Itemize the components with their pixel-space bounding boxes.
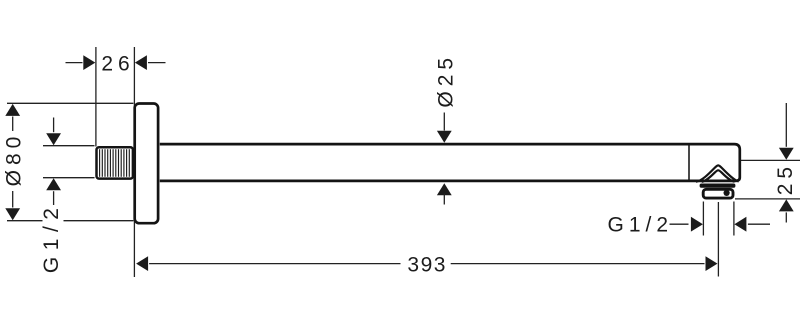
outlet seal band bbox=[700, 184, 736, 188]
dimension Ø80: bottom extension line bbox=[7, 220, 133, 222]
dimension G1/2 left: upper arrowhead bbox=[46, 133, 61, 145]
dimension G1/2 right: right extension line bbox=[733, 202, 735, 236]
dimension 393: right arrowhead bbox=[706, 256, 718, 271]
dimension 25 right: upper arrowhead bbox=[779, 148, 794, 160]
dimension Ø25: lower arrowhead bbox=[437, 183, 452, 195]
svg-text:25: 25 bbox=[774, 162, 797, 195]
svg-text:G1/2: G1/2 bbox=[608, 213, 674, 236]
dimension G1/2 left: top extension line bbox=[43, 145, 95, 147]
svg-text:393: 393 bbox=[407, 253, 447, 276]
dimension 26: left stem bbox=[66, 62, 83, 64]
outlet cup bbox=[703, 189, 733, 198]
dimension G1/2 right: leader stem bbox=[670, 223, 689, 225]
dimension 393: right line segment bbox=[451, 263, 705, 265]
dimension G1/2 left: lower arrowhead bbox=[46, 178, 61, 190]
dimension Ø80: upper stem bbox=[12, 117, 14, 132]
dimension G1/2 right: right-pointing arrowhead bbox=[691, 217, 703, 232]
dimension G1/2 right: left extension line bbox=[702, 202, 704, 236]
outlet chevron inner line bbox=[702, 170, 735, 182]
dimension G1/2 right: left-pointing arrowhead bbox=[734, 217, 746, 232]
dimension G1/2 left: lower stem bbox=[53, 191, 55, 207]
threaded nipple bbox=[97, 147, 133, 178]
dimension 393: right extension line (outlet axis) bbox=[717, 202, 719, 277]
dimension 26: right stem bbox=[148, 62, 166, 64]
dimension 25 right: lower stem bbox=[785, 212, 787, 222]
svg-text:Ø80: Ø80 bbox=[3, 132, 26, 187]
dimension Ø80: top arrowhead bbox=[5, 104, 20, 116]
dimension 25 right: top extension line bbox=[741, 159, 800, 161]
thread hatch lines bbox=[100, 149, 130, 177]
dimension 25 right: upper stem bbox=[785, 103, 787, 147]
dimension Ø25: upper arrowhead bbox=[437, 131, 452, 143]
outlet chevron outer line bbox=[696, 165, 739, 181]
dimension G1/2 left: bottom extension line bbox=[43, 177, 95, 179]
dimension G1/2 left: white halo behind label bbox=[43, 205, 64, 275]
end cap joint line bbox=[688, 146, 690, 180]
dimension 26: left arrowhead bbox=[83, 55, 95, 70]
dimension Ø25: lower stem bbox=[443, 194, 445, 205]
dimension Ø80: lower stem bbox=[12, 191, 14, 208]
dimension 393: left line segment bbox=[149, 263, 400, 265]
svg-text:26: 26 bbox=[101, 53, 134, 76]
dimension 25 right: bottom extension line bbox=[735, 198, 800, 200]
svg-text:Ø25: Ø25 bbox=[435, 53, 458, 108]
outlet cup detail dot bbox=[724, 190, 730, 196]
dimension 26: wall plane extension line (full height) bbox=[133, 47, 135, 277]
dimension 393: left arrowhead bbox=[136, 256, 148, 271]
dimension 25 right: lower arrowhead bbox=[779, 199, 794, 211]
dimension Ø80: bottom arrowhead bbox=[5, 208, 20, 220]
wall flange bbox=[135, 104, 158, 224]
dimension 26: right arrowhead bbox=[135, 55, 147, 70]
svg-text:G1/2: G1/2 bbox=[40, 202, 63, 274]
shower arm tube outline bbox=[160, 144, 740, 181]
dimension Ø80: top extension line bbox=[7, 102, 133, 104]
dimension G1/2 right: right stem bbox=[748, 223, 770, 225]
dimension 26: extension line left (thread start) bbox=[95, 47, 97, 147]
dimension Ø25: upper stem bbox=[443, 113, 445, 131]
dimension G1/2 left: upper stem bbox=[53, 118, 55, 133]
